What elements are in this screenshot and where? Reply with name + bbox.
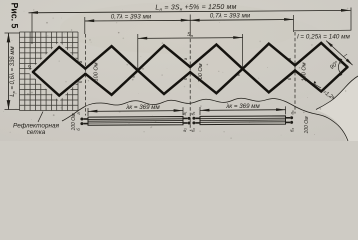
collector line bar 1 — [88, 117, 183, 126]
feed axis dashed line at vertex 5 — [294, 32, 296, 114]
diamond 1 (zigzag element) — [33, 47, 85, 96]
axis line above crossing 4 — [242, 34, 244, 69]
90 degree vertex angle annotation — [329, 58, 342, 76]
diamond 3 (zigzag element) — [138, 45, 190, 94]
label 100 Ом at feed vertex 2 — [198, 63, 204, 82]
wire diameter label d = 1,2 мм — [314, 81, 341, 104]
collector line bar 2 — [200, 116, 286, 125]
svg-text:λк = 369 мм: λк = 369 мм — [225, 103, 260, 110]
diamond 6 (zigzag element) — [295, 43, 347, 92]
svg-text:Sн: Sн — [187, 32, 194, 38]
wavy break line (main) — [62, 98, 348, 141]
label 100 Ом at right feeder end — [304, 116, 310, 134]
svg-text:б₃: б₃ — [290, 128, 295, 132]
svg-text:б₂: б₂ — [191, 128, 196, 132]
svg-text:а₃: а₃ — [290, 110, 295, 114]
diamond 2 (zigzag element) — [85, 46, 137, 95]
paper background — [0, 0, 358, 141]
bar 2 right terminals — [286, 116, 294, 124]
torn-out lighter pocket bottom right — [316, 77, 358, 141]
diamond 5 (zigzag element) — [243, 44, 295, 93]
dimension λк = 369 мм (bar 1) — [88, 104, 183, 116]
svg-text:100 Ом: 100 Ом — [94, 62, 100, 81]
svg-text:100 Ом: 100 Ом — [302, 62, 308, 81]
axis line above crossing 2 — [137, 34, 139, 70]
scan noise speckles — [3, 4, 348, 139]
bar 2 left terminals — [192, 117, 200, 125]
label 100 Ом at left feeder end — [71, 113, 77, 131]
dimension Sн (diamond pitch) — [138, 32, 243, 39]
figure number Рис. 5 — [10, 3, 20, 29]
dimension Lв = 0,6λ = 336 мм (height) — [5, 33, 20, 110]
dimension Lн = 3Sн+5% = 1250 мм (overall length) — [29, 4, 352, 44]
svg-text:100 Ом: 100 Ом — [304, 116, 310, 134]
svg-text:Lв = 0,6λ = 336 мм: Lв = 0,6λ = 336 мм — [10, 46, 16, 96]
dimension 0,7λ = 393 мм (right span) — [190, 13, 293, 32]
bar 1 left terminals — [80, 118, 88, 126]
label l = 0,25λ = 140 мм with leader — [294, 30, 351, 40]
label 100 Ом at feed vertex 1 — [94, 62, 100, 81]
feed axis dashed line at vertex 3 — [189, 33, 191, 131]
label 100 Ом at feed vertex 3 — [302, 62, 308, 81]
svg-text:100 Ом: 100 Ом — [198, 63, 204, 82]
feed axis dashed line at vertex 1 — [84, 34, 86, 116]
bar 1 right terminals — [183, 117, 191, 125]
caption Рефлекторная сетка — [13, 112, 60, 137]
dimension 0,7λ = 393 мм (left span) — [85, 13, 190, 34]
svg-text:l = 0,25λ = 140 мм: l = 0,25λ = 140 мм — [297, 34, 350, 41]
reflector mesh grid — [20, 32, 89, 111]
diamond 4 (zigzag element) — [190, 45, 242, 94]
svg-text:сетка: сетка — [27, 129, 46, 136]
svg-text:0,7λ = 393 мм: 0,7λ = 393 мм — [210, 13, 251, 20]
svg-text:а₂: а₂ — [182, 128, 187, 132]
svg-text:Рис. 5: Рис. 5 — [10, 3, 20, 29]
node letters at feed gaps and terminals — [27, 57, 295, 132]
wavy break line (upper right) — [316, 76, 358, 110]
dimension l along diamond side — [326, 41, 353, 66]
dimension λк = 369 мм (bar 2) — [200, 103, 286, 115]
